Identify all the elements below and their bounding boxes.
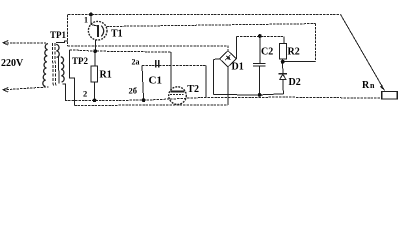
wire 2a-2b vertical [142, 66, 144, 101]
wire diagonal to Rn [341, 14, 385, 90]
wire 6 C2/D2 bottom net [214, 94, 284, 95]
arrow left top [3, 41, 8, 45]
wire 8 lowest horizontal [74, 104, 228, 107]
wire R1 bottom lead [94, 82, 96, 100]
wire left vertical with jog down to bottom [70, 50, 75, 106]
arrow left bottom [3, 88, 8, 92]
svg-text:T2: T2 [187, 84, 199, 95]
svg-text:R: R [362, 80, 370, 91]
resistor R1 [91, 66, 98, 82]
wire D1 bottom vertical [227, 67, 229, 105]
wire 5 C1 horizontal [142, 65, 206, 67]
diode bridge D1 [220, 51, 237, 67]
wire 7 upper DC rail [237, 35, 284, 37]
transformer TP1 secondary coil [56, 44, 59, 57]
transformer TP1/TP2 primary coil [43, 44, 48, 87]
wire TP2 coil bottom lead [63, 84, 66, 101]
wire C2 top lead [259, 36, 261, 63]
svg-text:T1: T1 [111, 29, 123, 40]
transistor T2 circle [169, 87, 187, 105]
resistor Rn [382, 92, 398, 99]
svg-text:n: n [370, 81, 375, 90]
node C2 bottom [258, 93, 262, 97]
wire D2 top lead [282, 62, 284, 73]
wire R2 bottom lead [282, 59, 284, 62]
node bottom rail / R1 [93, 98, 97, 102]
wire D1 left stub [214, 58, 220, 61]
capacitor C1 [155, 60, 157, 68]
node bottom rail / 2b [142, 98, 146, 102]
capacitor C2 [253, 62, 266, 64]
wire T1 bottom lead [94, 40, 96, 51]
transformer TP2 secondary coil [61, 57, 64, 82]
wire 3 horizontal to D1 top [68, 46, 229, 51]
wire D1 right vertical [235, 36, 237, 58]
wire 220V top [3, 42, 46, 44]
transformer core [52, 43, 53, 87]
transistor T1 arc [101, 26, 103, 37]
transistor T1 plate [97, 25, 99, 37]
svg-text:C1: C1 [149, 75, 162, 87]
diode glyph inside D1 [226, 56, 230, 60]
svg-text:D1: D1 [232, 62, 244, 73]
transistor T1 circle [88, 21, 107, 40]
svg-text:220V: 220V [1, 58, 24, 69]
arrowhead on diagonal at Rn [380, 85, 385, 91]
wire bottom rail [65, 97, 382, 100]
node C2 top [258, 34, 262, 38]
transistor T2 bottom plate [170, 94, 184, 96]
svg-text:TP1: TP1 [50, 30, 67, 40]
transistor T2 top plate [171, 90, 185, 92]
transformer TP2 core line [58, 57, 61, 84]
wire C1 right drop [205, 66, 207, 98]
svg-text:2б: 2б [129, 85, 138, 95]
wire TP1 secondary top jog [56, 41, 68, 42]
diode D2 [278, 73, 287, 75]
svg-text:2a: 2a [132, 58, 140, 67]
wire 220V bottom [3, 87, 49, 90]
node top rail / T1 [89, 13, 93, 17]
svg-text:2: 2 [83, 89, 87, 99]
wire R2 top lead [283, 37, 285, 44]
wire T1 top lead [91, 15, 97, 27]
wire T2 top lead vertical [170, 52, 172, 90]
wire right vertical down [315, 24, 317, 62]
wire D1 left vertical down [213, 59, 215, 94]
wire 4 from TP2 to T2 top [70, 50, 172, 52]
wire R1 top lead [94, 51, 96, 66]
svg-text:1: 1 [84, 16, 88, 25]
svg-text:TP2: TP2 [72, 56, 89, 66]
wire D2 bottom lead [282, 80, 284, 94]
wire left vertical from top rail [67, 14, 69, 46]
wire to R2/D2 junction [283, 60, 316, 62]
svg-text:R1: R1 [100, 70, 112, 81]
wire C2 bottom lead [259, 66, 261, 95]
svg-text:D2: D2 [289, 77, 301, 88]
node R2 / D2 [281, 60, 285, 64]
wire 2 from T1 to right vertical [106, 24, 315, 27]
svg-text:R2: R2 [288, 47, 300, 58]
resistor R2 [280, 44, 287, 59]
svg-text:C2: C2 [261, 47, 273, 58]
node wire4 / R1 / T1 [93, 49, 97, 53]
wire top rail [68, 13, 341, 15]
